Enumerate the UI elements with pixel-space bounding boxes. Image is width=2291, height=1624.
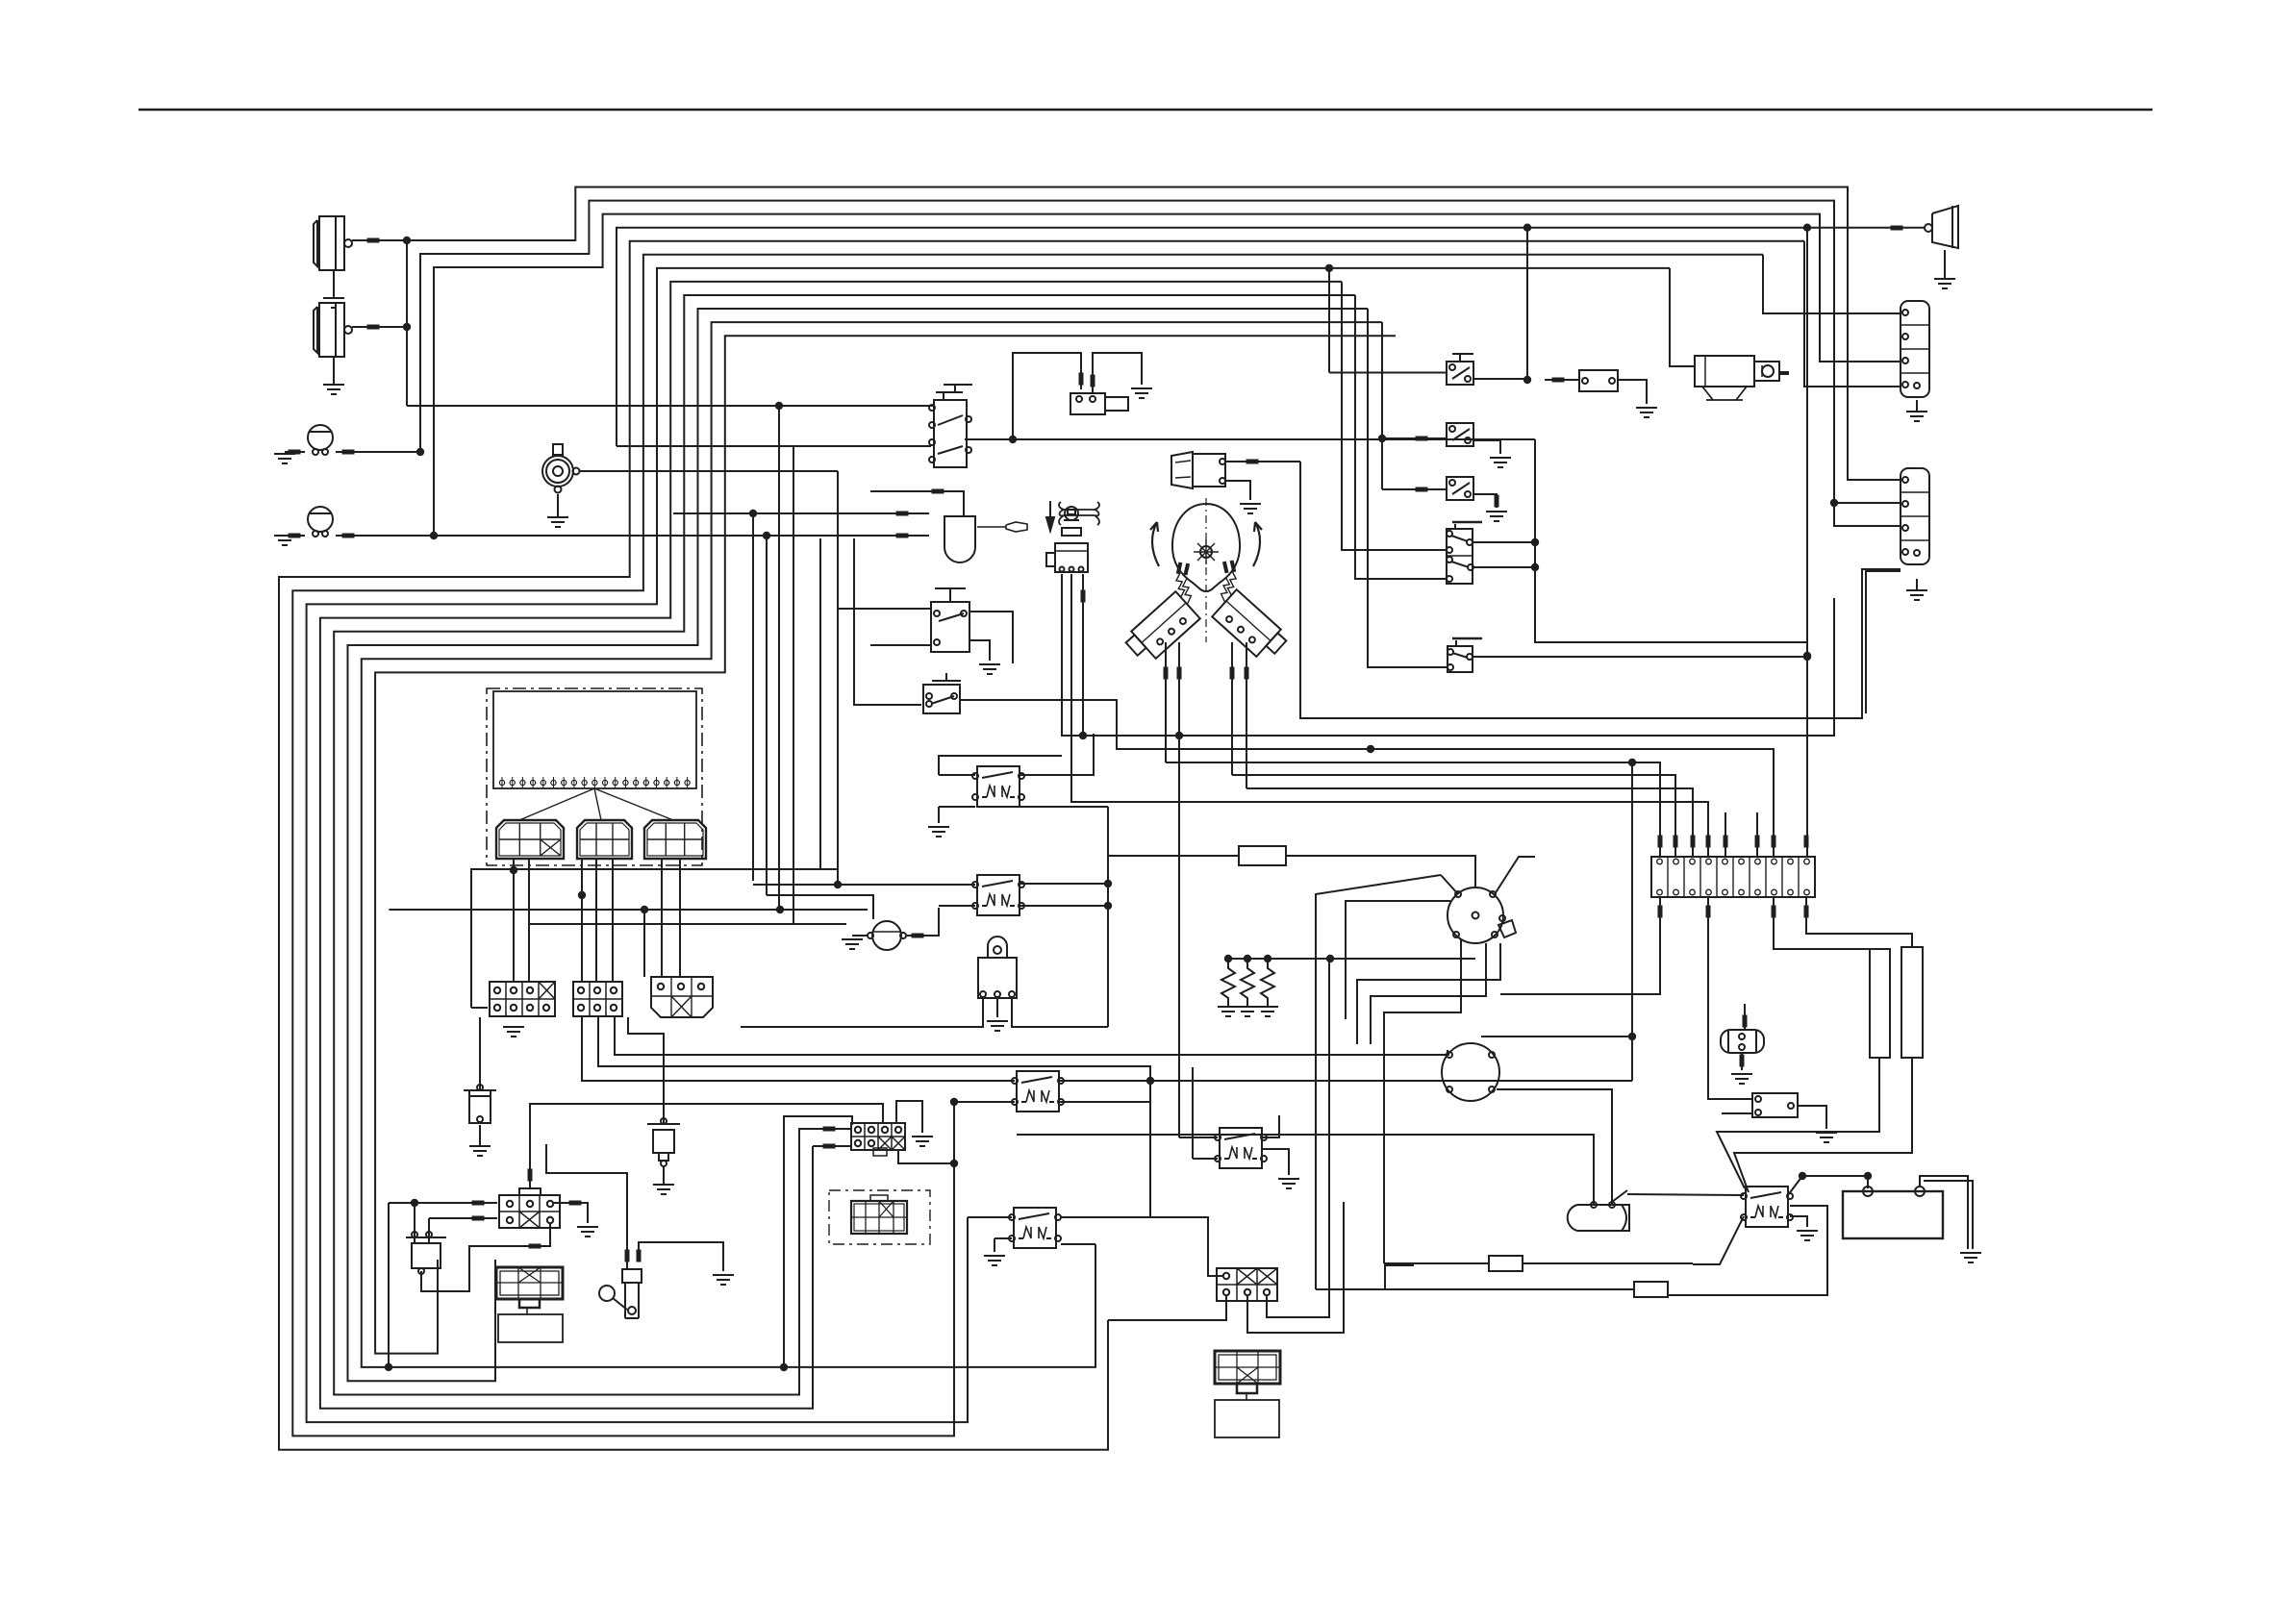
sender feed [479, 1017, 481, 1090]
node plug 2 [1244, 955, 1251, 962]
alternator [1442, 1043, 1499, 1101]
diode r2 drop [428, 1218, 430, 1237]
hazard unit neck [519, 1299, 540, 1314]
charge relay R5 [972, 766, 1024, 807]
node R2 out [1146, 1077, 1154, 1085]
mid bundle wire 5 [1232, 775, 1675, 857]
splice diode top [528, 1169, 533, 1182]
node R2 coil [950, 1098, 958, 1106]
S1 right wire [965, 438, 1013, 440]
ground rear lamp [1934, 250, 1955, 288]
conn C wire down 2 [628, 1017, 664, 1124]
ground connector B [1906, 579, 1927, 600]
S1 out up to relay R1 [1013, 353, 1081, 439]
ground horn relay [1816, 1133, 1837, 1142]
splice rear lamp [1891, 226, 1903, 231]
splice J1 L1 [823, 1127, 836, 1132]
top bundle wire 8 [320, 282, 1342, 1409]
S1 out to right [1013, 438, 1535, 440]
headlamp L1 [314, 216, 352, 270]
top bundle wire 11 right tail [1381, 322, 1383, 489]
solenoid pin1 up [1017, 1135, 1594, 1205]
lower mid wire 1 [753, 884, 975, 886]
lamp box [1215, 1400, 1279, 1437]
top bundle wire 5 right tail [1804, 241, 1901, 387]
diode block pins [507, 1201, 553, 1223]
S5 right wire 2 [1473, 566, 1535, 568]
diode feed drop [388, 1203, 390, 1367]
neutral switch S4 [923, 685, 960, 713]
ign lead 4 [1357, 943, 1500, 1044]
node J1 out join [950, 1160, 958, 1167]
R6 coil right [1020, 905, 1108, 907]
top bundle wire 8 right tail [1342, 282, 1447, 550]
flasher top feed [929, 491, 964, 516]
top bundle wire 4 right tail [1806, 228, 1808, 857]
steering wheel outline [1172, 504, 1240, 591]
solenoid lever [1612, 1190, 1627, 1202]
under-cluster bus A [471, 869, 839, 1008]
gauge sensor [868, 921, 906, 950]
top bundle wire 9 [334, 295, 1355, 1395]
node on headlamp bus [775, 402, 783, 410]
node w4 top [1803, 224, 1811, 232]
resistor r1 right [1523, 1262, 1693, 1264]
splice fuse top e [1724, 836, 1728, 848]
column lamp ground wire [1225, 481, 1250, 500]
node J1 upper feed [780, 1363, 788, 1371]
fuel pump top wire [1744, 1004, 1746, 1030]
lamp relay R6 [972, 875, 1024, 915]
ground fusible link [653, 1165, 674, 1194]
instrument cluster dashed box [487, 688, 702, 865]
node lower mid 3 [641, 906, 648, 913]
horn H1 [542, 444, 580, 493]
junction connector J1 [851, 1123, 905, 1150]
R8 right lower out [1668, 1206, 1827, 1295]
splice R1 right [1091, 375, 1095, 387]
top bundle wire 7 right tail [1328, 268, 1330, 373]
node R6 a [1104, 880, 1112, 887]
ground of L4 [274, 536, 295, 545]
rear connector A [1901, 301, 1929, 397]
conn C wire down 1 [615, 1017, 1449, 1055]
spark plug resistor 2 [1241, 959, 1254, 1007]
key switch S2 [1046, 507, 1088, 572]
starter motor [1695, 356, 1789, 400]
node w2 [1830, 499, 1838, 507]
arrow down at S2 [1046, 501, 1054, 531]
splice S8 [1416, 437, 1428, 441]
splice diode r1 [472, 1201, 485, 1206]
spare connector dashed box [829, 1190, 930, 1244]
safety relay R7 [1579, 370, 1618, 391]
splice column lamp [1246, 460, 1259, 464]
cluster wire D [595, 860, 597, 982]
ground of L1 [323, 270, 344, 308]
resistor r1 left [1384, 1262, 1489, 1264]
battery [1843, 1187, 1943, 1238]
splice L4 right [342, 534, 355, 538]
steering hub [1194, 539, 1219, 564]
node S5b [1531, 563, 1539, 571]
horn relay left 2 [1722, 1112, 1752, 1114]
splice comb-left 2 [1177, 667, 1182, 680]
node R6 b [1104, 902, 1112, 910]
mid bundle wire 4 [1166, 762, 1660, 857]
node flasher low [763, 532, 770, 539]
gauge ground wire [852, 935, 868, 937]
mid bundle wire 3 [960, 700, 1774, 857]
top bundle wire 12 [375, 336, 1396, 1353]
R3 ground wire [994, 1237, 1012, 1239]
spark plug resistor 1 [1221, 959, 1235, 1007]
combination switch right [1192, 558, 1302, 664]
fuse feed stub [1725, 812, 1726, 857]
splice L3 right [342, 450, 355, 455]
distributor [1448, 887, 1516, 943]
gauge out wire [906, 908, 939, 936]
combination switch left [1111, 560, 1221, 666]
hazard unit connector [496, 1267, 563, 1299]
R4 left wire 2 [1193, 1158, 1218, 1160]
ign lead 2 [1328, 959, 1330, 1268]
S5 bus vertical [1535, 439, 1807, 642]
top bundle wire 3 [434, 214, 1901, 536]
ign lead 3 [1346, 901, 1450, 1019]
ground R5 [928, 827, 949, 837]
diode pack [406, 1232, 446, 1274]
splice S9 [1416, 487, 1428, 492]
R2 coil left wire [954, 1101, 1015, 1103]
node L1 junction [403, 237, 411, 244]
interlock switch S7 [1447, 354, 1473, 385]
brake lever ground wire [639, 1242, 723, 1271]
ground S3 [979, 664, 1000, 674]
ground sender [469, 1125, 491, 1156]
brake lever feed [626, 1240, 628, 1269]
ground S8 [1490, 458, 1511, 467]
horn wire down to relay [837, 471, 839, 885]
column lamp connector [1171, 452, 1225, 488]
node lower mid 3b [776, 906, 784, 913]
cluster wire E [612, 860, 614, 982]
R8 top diag [1788, 1176, 1802, 1195]
R6 right wire [1020, 883, 1108, 885]
ground J1 [912, 1137, 933, 1146]
conn C top leg [643, 910, 645, 977]
ground connector A2 [503, 1027, 524, 1037]
brake lever feed up [546, 1144, 627, 1240]
top bundle wire 4 [617, 228, 1925, 446]
connector B pin4 wire [1866, 571, 1901, 713]
alternator out right [1497, 1089, 1612, 1205]
ground plug 2 [1237, 1007, 1258, 1016]
battery cable [1920, 1176, 1968, 1249]
J1 top wire [530, 1104, 883, 1144]
node mid w4 [1628, 759, 1636, 766]
ign lead 5 [1371, 943, 1486, 1044]
starter relay R4 [1215, 1128, 1267, 1168]
flasher relay R2 [1012, 1071, 1064, 1112]
horn wire right [580, 470, 838, 472]
R8 left feed [1627, 1194, 1744, 1195]
floor connector B pins [578, 987, 617, 1011]
splice fuse top c [1691, 836, 1696, 848]
main relay R8 [1741, 1187, 1793, 1227]
S5 right wire up [1473, 541, 1535, 543]
cluster connector 3 [644, 820, 706, 859]
R8 lower diag feed [1693, 1216, 1744, 1264]
resistor left wire [1108, 855, 1239, 857]
battery cable 2 [1924, 1181, 1973, 1249]
comb-right pin wire 1 [1231, 642, 1233, 775]
vertical from flasher mid node [752, 513, 754, 881]
R4 ground wire [1263, 1149, 1289, 1175]
mid bundle wire 2 [1062, 574, 1834, 736]
splice brake lever 1 [625, 1250, 630, 1262]
wire L2 to junction [352, 326, 407, 328]
cluster wire B [528, 860, 530, 982]
node lower mid 2 [578, 891, 586, 899]
ballast resistor 2 [1901, 947, 1923, 1058]
R6 coil left feed [939, 905, 975, 907]
regulator pin1 wire [741, 998, 983, 1027]
flasher mid wire [673, 512, 929, 514]
resistor right wire [1286, 856, 1475, 888]
S3 right wire [969, 612, 1013, 663]
w2 spur [1834, 502, 1901, 504]
horn relay left 1 [1708, 897, 1752, 1099]
J2 out 3 [1267, 1268, 1329, 1317]
splice fuse top f [1755, 836, 1760, 848]
splice fuse top d [1706, 836, 1711, 848]
S3 low left wire [870, 644, 931, 646]
fuse out b route [1774, 897, 1879, 949]
R4 top right wire [1263, 1115, 1279, 1137]
ign lead 1 [1316, 875, 1441, 1289]
distributor V lines [1441, 857, 1535, 894]
ground connector A [1906, 400, 1927, 421]
regulator pin2 wire [996, 998, 998, 1017]
J2 out 2 [1247, 1202, 1344, 1333]
node L3 junction [416, 448, 424, 456]
splice fuse top h [1804, 836, 1809, 848]
cross wire 1078 [1481, 1036, 1632, 1037]
conn B wire down 2 [598, 1017, 1150, 1081]
J1 upper feed [784, 1116, 852, 1367]
fuel pump [1721, 1030, 1764, 1053]
splice fuse top a [1658, 836, 1663, 848]
header rule [138, 109, 2153, 112]
node w11 tap [1378, 435, 1386, 442]
headlamp bus drop [778, 406, 780, 910]
splice diode right [569, 1201, 582, 1206]
light switch S1 [929, 385, 972, 467]
fuse feed stub 2 [1756, 812, 1758, 857]
voltage regulator [978, 937, 1017, 998]
switch S8 [1447, 423, 1473, 446]
regulator pin3 wire [1012, 998, 1108, 1027]
S2 pin3 drop [1082, 574, 1084, 736]
diode block top tab [519, 1188, 541, 1195]
S4 left feed [854, 538, 921, 705]
ground column lamp [1240, 504, 1261, 513]
splice R1 in [1079, 373, 1084, 386]
starter solenoid [1568, 1202, 1629, 1231]
position lamp L4 [308, 507, 333, 537]
column lamp wire [1225, 461, 1300, 462]
L4 ground link [285, 535, 305, 537]
splice comb-right 1 [1230, 667, 1235, 680]
bus leg into connector A [471, 1007, 488, 1009]
splice gauge [912, 934, 924, 938]
top bundle wire 10 [348, 309, 1369, 1381]
S3 left wire [839, 608, 931, 610]
ground R3 [984, 1256, 1005, 1265]
S8 right wire [1473, 440, 1500, 454]
R8 ground [1790, 1216, 1807, 1227]
R3 right wire 1 [1061, 1217, 1223, 1276]
arrow curve left [1150, 522, 1159, 566]
ballast 2 out [1734, 1058, 1912, 1192]
flasher top from bus [870, 490, 929, 492]
fuse out west [1500, 897, 1660, 994]
cluster connector 1 [496, 820, 564, 859]
ignition resistor [1239, 846, 1286, 865]
floor connector B [573, 982, 622, 1016]
headlamp relay R1 [1070, 393, 1128, 414]
fuel sender [464, 1085, 496, 1123]
R3 left wire [968, 1216, 1012, 1218]
splice S9 right [1495, 495, 1499, 508]
node mid w2 a [1079, 732, 1087, 739]
node w4 lamp drop [1523, 224, 1531, 232]
node horn join [834, 881, 842, 888]
node diode r1 [411, 1199, 418, 1207]
cluster connector 2 [577, 820, 632, 859]
R1 right wire to ground [1093, 353, 1142, 393]
L3 ground link [285, 451, 305, 453]
horn relay box [1752, 1093, 1798, 1117]
node ign lead 2 [1326, 955, 1334, 962]
node S1 out [1009, 436, 1017, 443]
ground of horn [547, 494, 568, 527]
J1 top tab [873, 1148, 887, 1156]
J2 pins [1223, 1273, 1270, 1295]
splice on L1 wire [367, 238, 380, 243]
ground R7 [1636, 408, 1657, 417]
L4 wire right [336, 535, 434, 537]
fuse out c route [1806, 897, 1912, 947]
ground plug 3 [1257, 1007, 1278, 1016]
headlamp bus vertical [406, 240, 408, 406]
node R8 out [1799, 1172, 1806, 1180]
comb-left pin wire 1 [1165, 642, 1167, 762]
S4 lever [932, 673, 961, 681]
ground diode block [577, 1227, 598, 1237]
park brake lever switch [599, 1269, 642, 1318]
vertical from flasher low node [766, 536, 768, 895]
splice fuse top g [1772, 836, 1776, 848]
ground regulator [987, 1021, 1008, 1031]
wiper relay R3 [1009, 1208, 1061, 1248]
lower mid wire 4 [530, 923, 846, 925]
resistor r2 [1634, 1282, 1668, 1297]
splice L4 left [289, 534, 301, 538]
ground gauge [842, 939, 863, 949]
instrument cluster body [493, 691, 696, 788]
top bundle wire 4 feed run [793, 446, 794, 924]
diode block right ground [553, 1203, 588, 1223]
diode row2 left [429, 1217, 497, 1219]
node S5a [1531, 538, 1539, 546]
rear lamp feed drop [1526, 228, 1528, 378]
R2 right wire [1059, 1080, 1632, 1082]
brake switch S3 [931, 588, 969, 652]
mid bundle wire 7 [1071, 574, 1708, 857]
node under cluster [510, 866, 517, 874]
mid bundle wire 6 [1246, 788, 1693, 857]
top bundle wire 6 [292, 255, 1763, 1437]
hazard unit box [498, 1314, 563, 1342]
spare connector [851, 1195, 907, 1234]
long center vertical [819, 538, 821, 870]
top bundle wire 11 [362, 322, 1382, 1367]
conn B wire down 1 [582, 1017, 1015, 1081]
J2 out 1 [1108, 1296, 1226, 1320]
ground S9 [1486, 512, 1507, 521]
splice flasher low [896, 534, 909, 538]
top bundle wire 1 [407, 187, 1901, 481]
R7 right wire [1618, 380, 1647, 404]
fuel pump bottom wire [1741, 1053, 1743, 1070]
node L2 junction [403, 323, 411, 331]
ign lead 6 [1384, 939, 1461, 1263]
node R7 in [1523, 376, 1531, 384]
node mid w3 [1367, 745, 1374, 753]
node plug 3 [1264, 955, 1271, 962]
splice diode out [529, 1244, 541, 1249]
node plug 1 [1224, 955, 1232, 962]
diode r1 drop [414, 1203, 415, 1237]
ground brake lever [713, 1275, 734, 1285]
R2 coil right wire [1059, 1081, 1150, 1102]
R7 left wire [1545, 379, 1579, 381]
top bundle wire 7 [307, 268, 1670, 1422]
R5 coil left drop [938, 807, 940, 823]
fusible link [647, 1118, 680, 1166]
S9 left wire [1382, 488, 1447, 490]
resistor r2 bend [1385, 1265, 1414, 1289]
splice brake lever 2 [637, 1250, 642, 1262]
splice fuse top b [1674, 836, 1678, 848]
R3 right wire 2 [1061, 1243, 1095, 1245]
lower mid wire 2 [767, 895, 873, 919]
plug bus [1228, 958, 1475, 960]
motor feed drop [1670, 268, 1695, 366]
switch S9 [1447, 477, 1473, 500]
resistor r1 [1489, 1256, 1523, 1271]
S8 left wire [1382, 437, 1447, 439]
node flasher mid [749, 510, 757, 517]
splice L3 left [289, 450, 301, 455]
L4 wire to flasher unit [434, 535, 929, 537]
node L4 junction [430, 532, 438, 539]
splice fuse bottom d [1804, 906, 1809, 918]
arrow left-right at S2 [1059, 502, 1099, 525]
splice R7 [1552, 378, 1565, 383]
